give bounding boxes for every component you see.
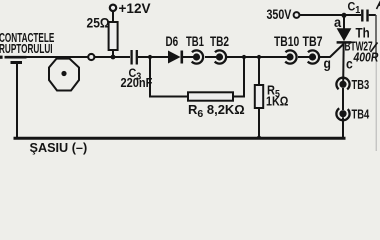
svg-text:a: a <box>334 15 342 30</box>
wire: TB1 to TB2 <box>205 56 220 58</box>
wire: TB2 to TB10 <box>227 56 290 58</box>
svg-text:D6: D6 <box>166 34 179 50</box>
switch contact (breaker points) fixed bar <box>0 56 27 63</box>
svg-text:C1: C1 <box>348 1 361 16</box>
svg-text:25Ω: 25Ω <box>87 15 110 31</box>
node: cropped mark top right corner <box>377 3 380 9</box>
resistor R5 1Kohm <box>255 85 263 108</box>
label 220nF <box>121 75 153 90</box>
label TB1 <box>186 35 204 50</box>
label TB4 <box>352 108 370 122</box>
ground bus (chassis) <box>14 137 346 140</box>
label 350V <box>267 7 293 23</box>
wire: right edge vertical lower faint <box>375 58 377 151</box>
svg-text:g: g <box>324 55 331 71</box>
svg-text:R6 8,2KΩ: R6 8,2KΩ <box>188 102 245 120</box>
svg-text:+12V: +12V <box>119 1 152 16</box>
node junction dot after C3 <box>148 55 152 59</box>
wire: 350V to C1 <box>300 14 362 16</box>
wire: +12V to resistor <box>112 11 114 22</box>
label c (cathode) <box>346 56 353 72</box>
resistor 25ohm <box>109 22 118 50</box>
wire: R6 right leg <box>233 57 244 97</box>
terminal TB7 <box>306 50 319 63</box>
terminal TB2 <box>213 50 226 63</box>
wire: TB4 down to bus <box>342 117 344 138</box>
wire: diode to TB1 <box>183 56 196 58</box>
wire: gate diagonal to thyristor <box>330 44 344 57</box>
thyristor Th anode wire <box>343 16 345 30</box>
thyristor Th triangle <box>337 28 352 41</box>
node junction dot at resistor/main wire <box>111 55 116 60</box>
node: 350V supply terminal <box>294 12 300 18</box>
diode D6 <box>168 51 182 64</box>
cam (octagon with shaft dot) <box>49 59 79 91</box>
label 400R <box>353 50 379 64</box>
wire: cathode down to TB3 <box>342 42 345 81</box>
svg-text:TB3: TB3 <box>352 79 370 93</box>
capacitor C1 <box>362 10 367 22</box>
wire: resistor to main wire <box>112 50 114 57</box>
label C3 <box>129 68 142 83</box>
svg-text:TB1: TB1 <box>186 35 204 50</box>
node: +12V supply terminal <box>110 5 116 11</box>
node junction dot R5 top <box>257 55 261 59</box>
wire: C3 to diode <box>138 56 169 58</box>
wire: TB7 to gate bend <box>320 56 331 58</box>
label Th <box>356 24 370 40</box>
thyristor Th cathode bar <box>337 41 352 44</box>
label SASIU (-) <box>30 140 88 155</box>
label a (anode) <box>334 15 342 30</box>
svg-text:1KΩ: 1KΩ <box>266 95 288 109</box>
terminal TB4 <box>336 107 349 120</box>
terminal TB3 <box>336 78 349 91</box>
label TB7 <box>303 34 323 50</box>
svg-text:Th: Th <box>356 24 370 40</box>
label g (gate) <box>324 55 331 71</box>
label C1 <box>348 1 361 16</box>
terminal TB10 <box>283 50 296 63</box>
wire: R5 bottom lead to bus <box>258 108 260 138</box>
resistor R6 8,2Kohm <box>188 92 233 100</box>
label R6 8,2Kohm <box>188 102 245 120</box>
terminal TB1 <box>190 50 203 63</box>
wire: TB10 to TB7 <box>298 56 313 58</box>
svg-text:400R: 400R <box>353 50 379 64</box>
node junction dot R5 at bus <box>257 136 261 140</box>
label +12V <box>119 1 152 16</box>
label 25ohm <box>87 15 110 31</box>
node: breaker contacts label <box>0 31 54 56</box>
svg-text:TB4: TB4 <box>352 108 370 122</box>
label TB3 <box>352 79 370 93</box>
node: open terminal on wire <box>88 54 94 60</box>
svg-text:350V: 350V <box>267 7 293 23</box>
wire: main horizontal from contact <box>27 56 89 58</box>
wire: terminal to C3 <box>95 56 130 58</box>
svg-text:RUPTORULUI: RUPTORULUI <box>0 42 53 56</box>
svg-text:c: c <box>346 56 353 72</box>
wire: right edge vertical (faint) <box>375 15 377 58</box>
wire: R6 left leg <box>150 57 188 97</box>
node junction dot anode <box>342 13 347 18</box>
label TB10 <box>274 34 299 50</box>
node junction dot R6 right at main wire <box>242 55 246 59</box>
svg-text:TB10: TB10 <box>274 34 299 50</box>
capacitor C3 <box>132 50 137 65</box>
label TB2 <box>210 34 229 50</box>
wire: contact to ground bus (left vertical) <box>16 64 18 139</box>
label D6 <box>166 34 179 50</box>
wire: R5 top lead <box>258 57 260 85</box>
label slash after BTW27 <box>371 43 378 53</box>
wire: TB3 to TB4 <box>342 88 344 110</box>
label R5 1Kohm <box>266 84 288 109</box>
svg-text:TB7: TB7 <box>303 34 323 50</box>
wire: C1 to right edge corner <box>369 14 376 16</box>
svg-text:220nF: 220nF <box>121 75 153 90</box>
svg-text:ŞASIU (–): ŞASIU (–) <box>30 140 88 155</box>
label BTW27 <box>345 40 373 54</box>
svg-text:TB2: TB2 <box>210 34 229 50</box>
